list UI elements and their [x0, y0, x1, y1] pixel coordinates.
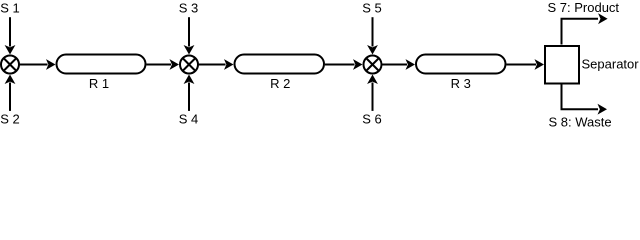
reactor R2 label: [270, 76, 290, 91]
svg-text:S 2: S 2: [0, 111, 20, 126]
wire separator to S7 (elbow up and right): [562, 19, 599, 45]
svg-text:S 5: S 5: [362, 0, 382, 15]
wire reactor R2 to mixer M3: [325, 64, 355, 66]
node S1 label: [0, 0, 20, 15]
mixer M2: [180, 56, 198, 74]
arrowhead into separator left: [535, 59, 545, 70]
wire reactor R3 to separator: [507, 64, 537, 66]
arrowhead into mixer M1 bottom: [5, 75, 16, 85]
separator unit: [545, 46, 579, 84]
svg-text:S 4: S 4: [179, 111, 199, 126]
wire reactor R1 to mixer M2: [147, 64, 172, 66]
svg-text:S 1: S 1: [0, 0, 20, 15]
wire mixer M1 to reactor R1: [19, 64, 48, 66]
arrowhead into mixer M3 bottom: [367, 75, 378, 85]
arrowhead into reactor R3: [406, 59, 416, 70]
arrowhead into mixer M2 top: [184, 45, 195, 55]
svg-text:S 7: Product: S 7: Product: [548, 0, 620, 15]
wire S1 to mixer M1: [9, 17, 11, 46]
node S5 label: [362, 0, 382, 15]
wire S2 to mixer M1: [9, 83, 11, 111]
arrowhead into mixer M2 bottom: [184, 75, 195, 85]
node S4 label: [179, 111, 199, 126]
arrowhead into reactor R1: [46, 59, 56, 70]
arrowhead into reactor R2: [224, 59, 234, 70]
arrowhead into mixer M2 left: [170, 59, 180, 70]
svg-text:S 3: S 3: [179, 0, 199, 15]
separator label: [582, 56, 640, 71]
arrowhead into mixer M3 left: [353, 59, 363, 70]
svg-text:Separator: Separator: [582, 56, 640, 71]
svg-text:S 6: S 6: [362, 111, 382, 126]
node S6 label: [362, 111, 382, 126]
arrowhead S8 output: [598, 104, 608, 115]
reactor R1: [57, 55, 146, 74]
reactor R3 label: [451, 76, 471, 91]
svg-text:R 3: R 3: [451, 76, 471, 91]
wire S5 to mixer M3: [372, 17, 374, 46]
reactor R3: [416, 55, 506, 74]
mixer M1: [1, 56, 19, 74]
node S3 label: [179, 0, 199, 15]
svg-text:R 2: R 2: [270, 76, 290, 91]
node S2 label: [0, 111, 20, 126]
mixer M3: [364, 56, 382, 74]
wire S4 to mixer M2: [188, 83, 190, 111]
arrowhead into mixer M1 top: [5, 45, 16, 55]
arrowhead S7 output: [598, 13, 608, 24]
reactor R2: [235, 55, 325, 74]
arrowhead into mixer M3 top: [367, 45, 378, 55]
reactor R1 label: [89, 76, 109, 91]
wire S6 to mixer M3: [372, 83, 374, 111]
node S8 label: [549, 115, 612, 130]
wire S3 to mixer M2: [188, 17, 190, 46]
svg-text:S 8: Waste: S 8: Waste: [549, 115, 612, 129]
wire mixer M3 to reactor R3: [382, 64, 408, 66]
node S7 label: [548, 0, 620, 15]
wire mixer M2 to reactor R2: [198, 64, 226, 66]
svg-text:R 1: R 1: [89, 76, 109, 91]
wire separator to S8 (elbow down and right): [562, 85, 599, 110]
